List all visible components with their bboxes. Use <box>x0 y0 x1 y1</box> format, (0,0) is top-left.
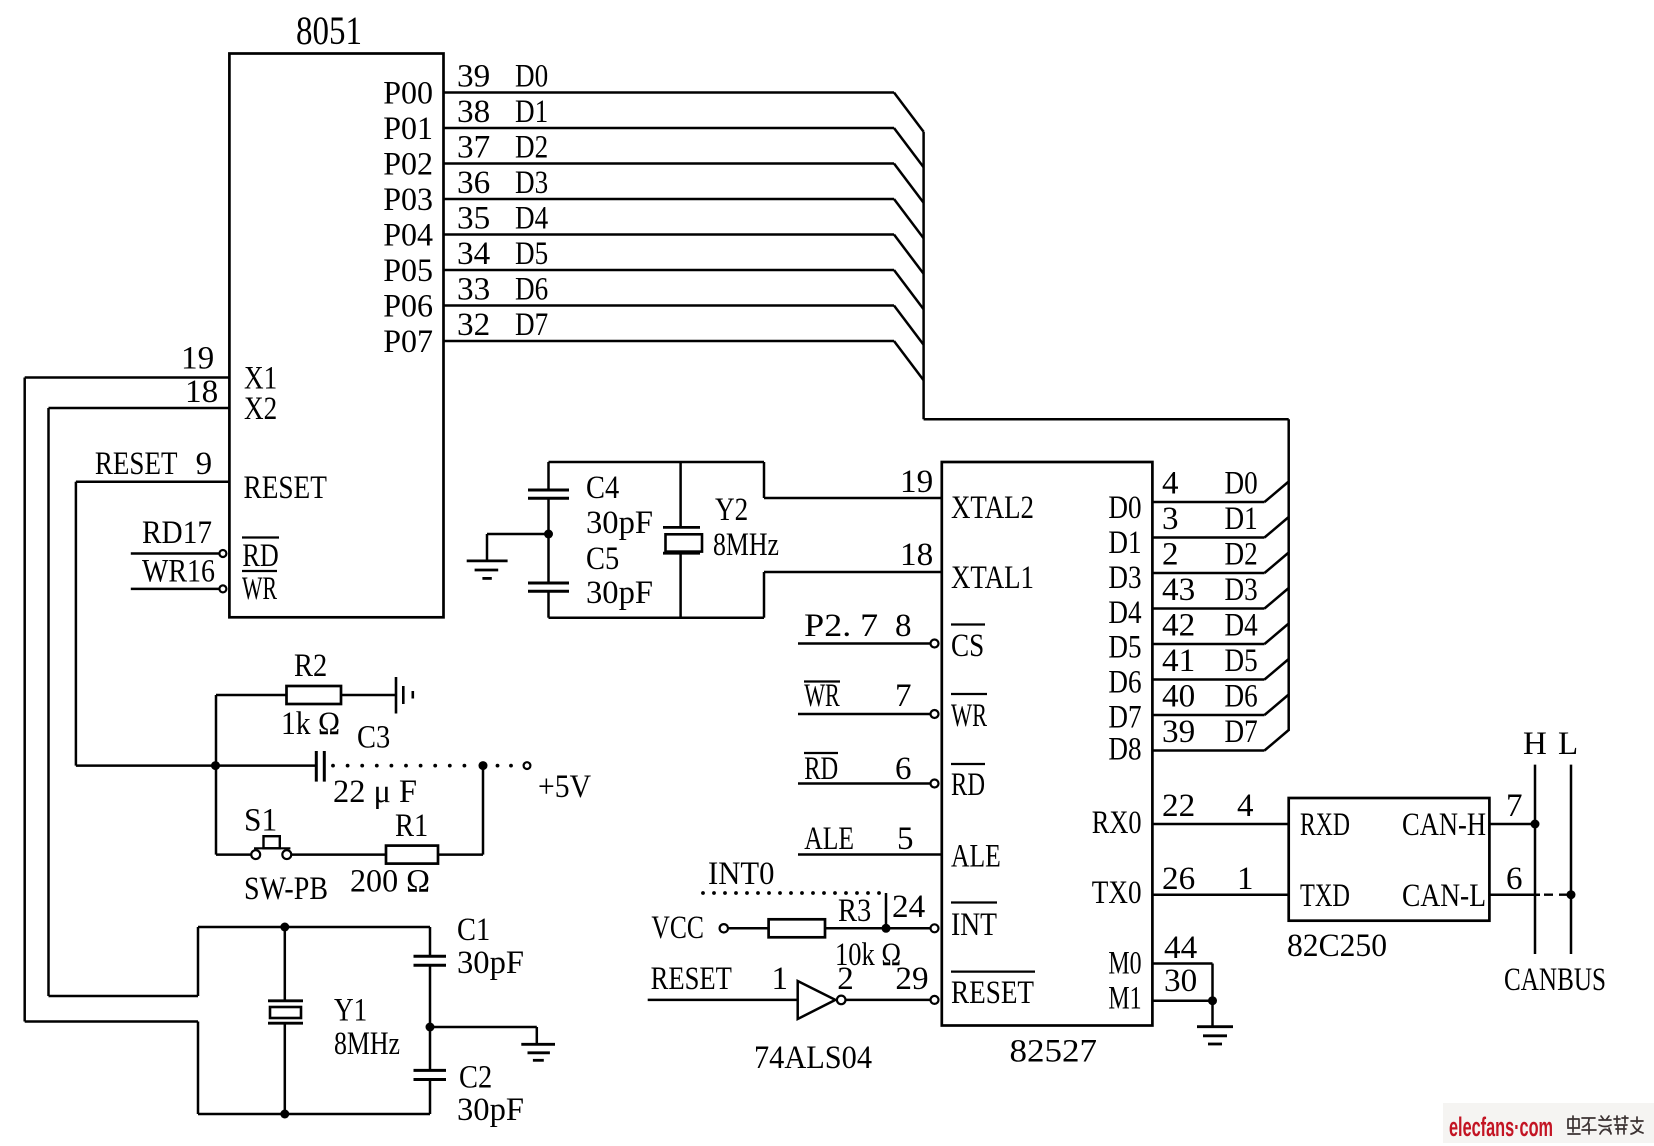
svg-text:74ALS04: 74ALS04 <box>754 1040 872 1076</box>
wire INT0 drop to INT <box>885 893 888 928</box>
svg-text:P06: P06 <box>383 289 433 325</box>
Y2 cluster top rail <box>549 461 765 464</box>
svg-text:7: 7 <box>895 678 912 714</box>
svg-text:18: 18 <box>185 374 218 410</box>
svg-text:24: 24 <box>892 889 925 925</box>
wire M1 <box>1152 999 1212 1002</box>
watermark background <box>1443 1103 1654 1143</box>
wire RESET net vertical to R2/S1 <box>215 695 218 855</box>
wire ALE <box>798 853 942 856</box>
svg-text:D5: D5 <box>1225 643 1258 679</box>
wire data D1 from 82527 pin 3 <box>1152 536 1264 539</box>
svg-text:D5: D5 <box>1108 630 1141 666</box>
svg-text:39: 39 <box>457 59 490 95</box>
switch S1 SW-PB <box>216 853 251 856</box>
bus entry diagonal D2 <box>894 164 924 203</box>
svg-text:D0: D0 <box>1225 466 1258 502</box>
svg-text:30pF: 30pF <box>457 945 524 981</box>
node junction CAN-L/L <box>1567 890 1576 899</box>
wire data D4 from 82527 pin 42 <box>1152 643 1264 646</box>
svg-text:ALE: ALE <box>951 839 1001 875</box>
svg-text:39: 39 <box>1162 714 1195 750</box>
bus entry diagonal D5 right <box>1265 659 1289 680</box>
svg-text:D5: D5 <box>515 236 548 272</box>
svg-text:R3: R3 <box>838 893 871 929</box>
CANBUS H line <box>1534 765 1537 954</box>
svg-text:4: 4 <box>1162 466 1179 502</box>
wire data bus D3 from 8051 pin 36 <box>444 198 895 201</box>
bus entry diagonal D1 right <box>1265 517 1289 538</box>
svg-text:D8: D8 <box>1108 732 1141 768</box>
svg-text:RD: RD <box>242 538 278 574</box>
svg-text:40: 40 <box>1162 679 1195 715</box>
wire data bus D2 from 8051 pin 37 <box>444 162 895 165</box>
svg-text:30pF: 30pF <box>457 1092 524 1128</box>
svg-text:D1: D1 <box>515 94 548 130</box>
svg-text:200 Ω: 200 Ω <box>350 864 430 900</box>
svg-text:RESET: RESET <box>651 961 732 997</box>
bus entry diagonal D6 right <box>1265 695 1289 716</box>
svg-text:+5V: +5V <box>538 769 591 805</box>
svg-text:Y1: Y1 <box>334 993 367 1029</box>
bus entry diagonal D4 <box>894 235 924 274</box>
wire M0 <box>1152 962 1212 965</box>
wire RX0 to RXD <box>1152 823 1288 826</box>
wire X2 <box>49 407 230 410</box>
wire data bus D7 from 8051 pin 32 <box>444 340 895 343</box>
wire RESET to inverter <box>648 999 798 1002</box>
wire to ground <box>487 533 549 536</box>
crystal Y2 <box>679 462 682 527</box>
crystal Y1 circuit top rail <box>198 926 430 929</box>
bus entry diagonal D7 right <box>1265 730 1289 751</box>
svg-text:D3: D3 <box>1108 560 1141 596</box>
pin bubble WR <box>219 585 226 592</box>
wire P2.7 to CS <box>798 642 931 645</box>
node junction CAN-H/H <box>1531 820 1540 829</box>
IC U4 82C250 CAN transceiver <box>1289 798 1490 921</box>
svg-text:L: L <box>1558 726 1578 762</box>
svg-text:42: 42 <box>1162 608 1195 644</box>
wire RD <box>131 552 220 555</box>
svg-text:D0: D0 <box>515 59 548 95</box>
svg-text:43: 43 <box>1162 572 1195 608</box>
wire data D5 from 82527 pin 41 <box>1152 678 1264 681</box>
wire data D3 from 82527 pin 43 <box>1152 607 1264 610</box>
wire data bus D5 from 8051 pin 34 <box>444 269 895 272</box>
svg-text:D0: D0 <box>1108 490 1141 526</box>
svg-text:8051: 8051 <box>296 8 362 53</box>
pin bubble CS <box>931 640 939 648</box>
svg-text:30pF: 30pF <box>586 575 653 611</box>
svg-text:RESET: RESET <box>95 446 178 482</box>
svg-text:D4: D4 <box>1225 608 1258 644</box>
wire WR <box>131 588 220 591</box>
svg-text:ALE: ALE <box>804 821 854 857</box>
node junction C4/C5/ground <box>544 530 553 539</box>
svg-text:RESET: RESET <box>244 470 327 506</box>
svg-text:8: 8 <box>895 608 912 644</box>
svg-text:38: 38 <box>457 94 490 130</box>
svg-text:CAN-L: CAN-L <box>1402 878 1486 914</box>
node junction +5V/R1 <box>479 761 488 770</box>
svg-text:D1: D1 <box>1225 501 1258 537</box>
svg-text:19: 19 <box>900 464 933 500</box>
svg-text:3: 3 <box>1162 501 1179 537</box>
svg-text:C3: C3 <box>357 720 390 756</box>
svg-text:D7: D7 <box>1225 714 1258 750</box>
svg-text:P00: P00 <box>383 76 433 112</box>
pin bubble RD <box>219 550 226 557</box>
svg-text:TX0: TX0 <box>1092 875 1142 911</box>
svg-text:CANBUS: CANBUS <box>1504 962 1606 998</box>
svg-text:RD: RD <box>951 767 985 803</box>
IC U1 8051 microcontroller <box>229 54 443 618</box>
svg-text:R1: R1 <box>395 808 428 844</box>
svg-text:9: 9 <box>196 446 213 482</box>
svg-text:D4: D4 <box>515 201 548 237</box>
svg-text:RD: RD <box>804 751 838 787</box>
bus entry diagonal D3 <box>894 199 924 238</box>
svg-text:VCC: VCC <box>651 910 704 946</box>
svg-text:D6: D6 <box>1108 665 1141 701</box>
svg-text:7: 7 <box>1506 788 1523 824</box>
svg-text:S1: S1 <box>244 803 277 839</box>
svg-text:82C250: 82C250 <box>1287 928 1387 964</box>
bus entry diagonal D1 <box>894 128 924 167</box>
svg-text:P02: P02 <box>383 147 433 183</box>
pin bubble WR <box>931 710 939 718</box>
svg-text:44: 44 <box>1164 930 1197 966</box>
wire data bus D4 from 8051 pin 35 <box>444 233 895 236</box>
svg-text:1: 1 <box>772 961 789 997</box>
wire data bus D1 from 8051 pin 38 <box>444 127 895 130</box>
wire data bus D6 from 8051 pin 33 <box>444 304 895 307</box>
svg-text:XTAL1: XTAL1 <box>951 560 1034 596</box>
svg-text:C1: C1 <box>457 912 490 948</box>
svg-text:41: 41 <box>1162 643 1195 679</box>
wire data D6 from 82527 pin 40 <box>1152 714 1264 717</box>
svg-text:D7: D7 <box>515 307 548 343</box>
svg-text:P05: P05 <box>383 253 433 289</box>
wire to ground <box>430 1026 537 1029</box>
svg-text:elecfans·com: elecfans·com <box>1449 1112 1553 1142</box>
svg-text:Y2: Y2 <box>715 492 748 528</box>
svg-text:4: 4 <box>1237 788 1254 824</box>
svg-text:30pF: 30pF <box>586 505 653 541</box>
svg-text:WR: WR <box>951 698 987 734</box>
svg-text:M1: M1 <box>1108 981 1141 1017</box>
svg-text:INT: INT <box>951 907 997 943</box>
svg-text:8MHz: 8MHz <box>334 1026 400 1062</box>
svg-text:2: 2 <box>1162 537 1179 573</box>
svg-text:37: 37 <box>457 130 490 166</box>
capacitor C2 <box>414 1069 447 1072</box>
wire RD <box>798 782 931 785</box>
svg-text:33: 33 <box>457 272 490 308</box>
svg-text:WR16: WR16 <box>142 554 215 590</box>
svg-text:D2: D2 <box>1225 537 1258 573</box>
Y2 cluster bottom rail <box>549 616 765 619</box>
ground after R2 (sideways bars) <box>395 677 398 714</box>
svg-text:19: 19 <box>181 341 214 377</box>
svg-text:RXD: RXD <box>1300 807 1350 843</box>
wire XTAL1 <box>764 571 942 574</box>
resistor R2 <box>216 694 287 697</box>
svg-text:X2: X2 <box>244 391 277 427</box>
svg-text:82527: 82527 <box>1010 1034 1098 1070</box>
svg-text:1: 1 <box>1237 861 1254 897</box>
svg-text:CS: CS <box>951 628 984 664</box>
wire data bus D0 from 8051 pin 39 <box>444 91 895 94</box>
svg-text:22: 22 <box>1162 788 1195 824</box>
wire inverter to RESET pin <box>846 999 931 1002</box>
svg-text:P03: P03 <box>383 182 433 218</box>
watermark chinese characters <box>1568 1116 1643 1134</box>
svg-text:35: 35 <box>457 201 490 237</box>
bus entry diagonal D5 <box>894 270 924 309</box>
node junction R3/INT0 <box>882 924 891 933</box>
wire RESET to 8051 <box>76 480 230 483</box>
svg-text:26: 26 <box>1162 861 1195 897</box>
svg-text:D3: D3 <box>515 165 548 201</box>
capacitor C1 <box>429 927 432 956</box>
dotted wire C3 to +5V <box>331 764 335 768</box>
resistor R3 <box>728 927 769 930</box>
svg-text:32: 32 <box>457 307 490 343</box>
bus entry diagonal D3 right <box>1265 588 1289 609</box>
svg-text:R2: R2 <box>294 648 327 684</box>
svg-text:5: 5 <box>897 821 914 857</box>
bus vertical segment left <box>922 132 925 419</box>
node junction M0/M1 <box>1208 996 1217 1005</box>
wire data D2 from 82527 pin 2 <box>1152 572 1264 575</box>
ground symbol C4/C5 <box>467 560 508 563</box>
svg-text:6: 6 <box>895 751 912 787</box>
bus entry diagonal D2 right <box>1265 553 1289 574</box>
svg-text:30: 30 <box>1164 963 1197 999</box>
svg-text:18: 18 <box>900 537 933 573</box>
svg-text:P2. 7: P2. 7 <box>804 608 878 644</box>
svg-text:D3: D3 <box>1225 572 1258 608</box>
node junction C1/C2/ground <box>426 1023 435 1032</box>
terminal VCC <box>720 924 728 932</box>
svg-text:D6: D6 <box>515 272 548 308</box>
svg-text:P07: P07 <box>383 324 433 360</box>
bus entry diagonal D0 right <box>1265 482 1289 503</box>
wire X1 <box>25 376 230 379</box>
dotted wire INT0 <box>701 891 705 895</box>
svg-text:36: 36 <box>457 165 490 201</box>
svg-text:D1: D1 <box>1108 525 1141 561</box>
svg-text:2: 2 <box>837 961 854 997</box>
svg-text:RX0: RX0 <box>1092 805 1142 841</box>
svg-text:WR: WR <box>242 571 277 607</box>
pin bubble RESET <box>931 996 939 1004</box>
svg-text:RESET: RESET <box>951 975 1034 1011</box>
wire CAN-L pin 6 (dashed to L) <box>1489 893 1540 896</box>
bus entry diagonal D4 right <box>1265 624 1289 645</box>
terminal +5V <box>524 762 531 769</box>
inverter U3 74ALS04 <box>798 981 836 1019</box>
wire XTAL2 <box>764 497 942 500</box>
svg-text:34: 34 <box>457 236 490 272</box>
wire TX0 to TXD <box>1152 893 1288 896</box>
svg-text:D2: D2 <box>515 130 548 166</box>
CANBUS L line <box>1570 765 1573 954</box>
crystal Y1 <box>284 927 287 1001</box>
svg-text:8MHz: 8MHz <box>713 527 779 563</box>
svg-text:C5: C5 <box>586 541 619 577</box>
svg-text:INT0: INT0 <box>708 856 774 892</box>
svg-text:SW-PB: SW-PB <box>244 871 328 907</box>
node junction RESET/C3 <box>211 761 220 770</box>
ground symbol Y1 <box>521 1043 555 1046</box>
wire WR <box>798 713 931 716</box>
resistor R1 <box>291 853 386 856</box>
svg-text:22 μ F: 22 μ F <box>333 774 417 810</box>
wire data D7 from 82527 pin 39 <box>1152 749 1264 752</box>
bus entry diagonal D7 <box>894 341 924 380</box>
svg-text:29: 29 <box>895 961 928 997</box>
wire data D0 from 82527 pin 4 <box>1152 501 1264 504</box>
svg-text:WR: WR <box>804 678 840 714</box>
capacitor C5 <box>528 582 569 585</box>
pin bubble INT <box>931 924 939 932</box>
svg-text:P04: P04 <box>383 218 433 254</box>
svg-text:1k Ω: 1k Ω <box>281 706 340 742</box>
crystal Y1 circuit bottom rail <box>198 1113 430 1116</box>
svg-text:CAN-H: CAN-H <box>1402 807 1486 843</box>
bus vertical segment right <box>1287 419 1290 731</box>
svg-text:6: 6 <box>1506 861 1523 897</box>
bus horizontal segment <box>924 418 1289 421</box>
svg-text:TXD: TXD <box>1300 878 1350 914</box>
svg-text:P01: P01 <box>383 111 433 147</box>
capacitor C4 <box>547 462 550 490</box>
svg-text:RD17: RD17 <box>142 515 212 551</box>
svg-text:C4: C4 <box>586 470 619 506</box>
svg-text:D6: D6 <box>1225 679 1258 715</box>
ground symbol M0/M1 <box>1197 1025 1233 1028</box>
svg-text:D4: D4 <box>1108 595 1141 631</box>
svg-text:C2: C2 <box>459 1060 492 1096</box>
IC U2 82527 CAN controller <box>942 462 1153 1026</box>
pin bubble RD <box>931 780 939 788</box>
svg-text:M0: M0 <box>1108 946 1141 982</box>
bus entry diagonal D0 <box>894 93 924 132</box>
capacitor C3 <box>76 764 316 767</box>
svg-text:H: H <box>1523 726 1547 762</box>
svg-text:D7: D7 <box>1108 699 1141 735</box>
svg-text:XTAL2: XTAL2 <box>951 490 1034 526</box>
wire CAN-H pin 7 <box>1489 823 1535 826</box>
bus entry diagonal D6 <box>894 306 924 345</box>
